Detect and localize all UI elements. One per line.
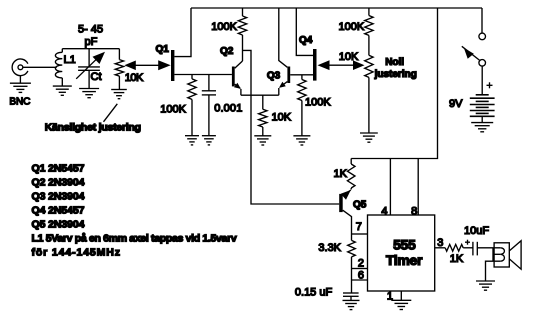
label plus 10uF [465,240,470,245]
ground Noll pot [360,133,378,142]
wire Q2/Q3 emitters [241,94,279,96]
inductor L1 [55,49,62,86]
wire +9V top rail [191,7,482,9]
ground Ct [79,89,99,98]
label 10K sensitivity pot [125,72,144,84]
svg-text:Timer: Timer [386,252,423,268]
wire pin 7 stub [352,233,368,235]
label 10K Noll [339,51,359,63]
capacitor 0.001 [202,75,216,136]
ground battery [471,123,493,132]
resistor 100K Q2 collector [238,8,246,61]
svg-text:555: 555 [393,237,416,253]
label 0.15uF [295,287,333,299]
wire BNC to L1 tap [23,66,57,68]
transistor Q5 2N3904 [339,190,351,234]
svg-text:100K: 100K [211,21,237,33]
wire pin 2 stub [352,268,368,270]
svg-text:Q2: Q2 [220,46,234,57]
svg-text:1K: 1K [450,253,464,265]
label Ct [91,71,102,83]
svg-text:8: 8 [411,206,417,218]
svg-text:9V: 9V [449,98,463,110]
ground BNC [10,76,31,93]
potentiometer 10K Noll [365,55,373,133]
label Q2 [220,46,234,57]
svg-text:4: 4 [381,206,387,218]
wire +9V right drop [351,8,437,159]
svg-text:100K: 100K [160,104,186,116]
label pin 8 [411,206,417,218]
svg-text:Q3: Q3 [267,71,281,82]
svg-text:Q1: Q1 [156,44,170,55]
connector J1 BNC [12,59,28,76]
ground pin 1 [391,300,411,309]
label L1 [64,54,76,66]
svg-text:7: 7 [356,221,362,233]
svg-text:Q5: Q5 [353,199,367,210]
svg-text:pF: pF [85,36,98,48]
label pF [85,36,98,48]
ground L1 [53,86,72,95]
label 100K Q4 source [305,97,331,109]
ground 0.001 [202,136,216,145]
label 1K Q5 [334,168,348,180]
label Timer [386,252,423,268]
svg-text:100K: 100K [305,97,331,109]
svg-text:3: 3 [437,237,443,249]
wire pin 6 stub [352,269,368,281]
svg-text:Känslighet justering: Känslighet justering [45,122,141,134]
wire pin 8 [417,159,419,216]
label BNC [9,97,30,108]
svg-text:3.3K: 3.3K [318,242,341,254]
transistor Q4 2N5457 [296,8,316,81]
resistor 3.3K [348,234,356,269]
label 555 [393,237,416,253]
svg-text:L1 5Varv på en 6mm axel tappas: L1 5Varv på en 6mm axel tappas vid 1.5va… [32,233,237,245]
ground pot 10K [111,90,127,99]
label 9V [449,98,463,110]
svg-text:10K: 10K [339,51,359,63]
svg-text:2: 2 [358,258,364,270]
resistor 100K Q4 source [298,75,306,136]
ground 10K tail [254,136,271,145]
svg-text:BNC: BNC [9,97,30,108]
label Q1 [156,44,170,55]
label 0.001 [214,103,242,115]
svg-text:10K: 10K [125,72,144,84]
transistor Q3 2N3904 [279,8,313,95]
label Q3 [267,71,281,82]
wire Q4 gate to Noll pot wiper [318,60,365,70]
svg-text:10K: 10K [272,111,292,123]
wire pin 4 [389,159,391,216]
capacitor 10uF [473,242,500,256]
capacitor 0.15uF [343,280,359,300]
label plus battery [487,82,493,88]
svg-text:justering: justering [374,69,417,80]
svg-text:0.15 uF: 0.15 uF [295,287,333,299]
svg-text:Q1 2N5457: Q1 2N5457 [32,163,85,175]
ground speaker [476,281,495,290]
label 100K Q2 collector [211,21,237,33]
svg-text:Q4: Q4 [299,35,313,46]
resistor 100K top right [365,8,373,55]
svg-text:Q5 2N3904: Q5 2N3904 [32,219,85,231]
svg-text:10uF: 10uF [464,225,489,237]
label 10K tail [272,111,292,123]
svg-text:100K: 100K [339,21,365,33]
label 5-45 [78,24,103,36]
ground 0.15uF [343,300,360,309]
label 1K output [450,253,464,265]
label 100K top right [339,21,365,33]
svg-text:0.001: 0.001 [214,103,242,115]
svg-text:L1: L1 [64,54,76,66]
potentiometer 10K sensitivity [115,49,123,90]
wire pin 3 stub [435,247,446,249]
label 3.3K [318,242,341,254]
ground 100K Q4 source [293,136,310,145]
switch S1 [462,8,486,66]
capacitor Ct 5-45pF variable [76,49,105,89]
svg-text:Q3 2N3904: Q3 2N3904 [32,191,85,203]
label pin 6 [358,269,364,281]
label 100K Q1 source [160,104,186,116]
text parts list [32,163,237,259]
label Känslighet justering [45,104,141,134]
label pin 1 [387,290,393,302]
transistor Q1 2N5457 [171,8,232,81]
transistor Q2 2N3904 [232,61,243,95]
resistor 1K Q5 collector [347,159,355,190]
svg-text:5- 45: 5- 45 [78,24,103,36]
label Q4 [299,35,313,46]
resistor 100K Q1 source [188,75,196,136]
label 10uF [464,225,489,237]
wire pot wiper to Q1 gate [124,60,170,70]
svg-text:Q4 2N5457: Q4 2N5457 [32,205,85,217]
wire Q2 collector to Q5 base [243,50,340,204]
svg-text:1K: 1K [334,168,348,180]
battery 9V [470,66,495,123]
IC U1 555 Timer box [368,215,435,291]
svg-text:Ct: Ct [91,71,102,83]
svg-text:för 144-145MHz: för 144-145MHz [32,247,121,259]
wire pin 1 stub [400,291,402,300]
ground 100K Q1 source [185,136,199,145]
label Q5 [353,199,367,210]
label pin 3 [437,237,443,249]
svg-text:6: 6 [358,269,364,281]
label pin 7 [356,221,362,233]
label Noll justering [374,57,417,80]
wire LC top node [62,48,119,50]
label pin 4 [381,206,387,218]
svg-text:Q2 2N3904: Q2 2N3904 [32,177,85,189]
resistor 10K tail [259,95,267,136]
speaker LS1 [486,241,522,281]
label pin 2 [358,258,364,270]
svg-text:Noll: Noll [385,57,404,68]
resistor 1K output [445,244,473,251]
